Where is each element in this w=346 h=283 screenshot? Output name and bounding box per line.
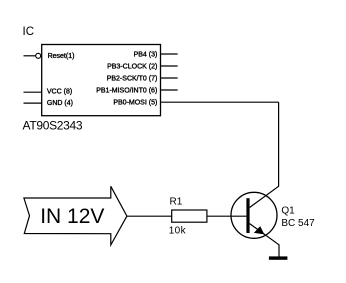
svg-text:PB4 (3): PB4 (3)	[134, 52, 158, 59]
svg-text:VCC (8): VCC (8)	[47, 89, 72, 96]
svg-text:PB1-MISO/INT0 (6): PB1-MISO/INT0 (6)	[96, 88, 157, 95]
svg-text:IC: IC	[23, 26, 35, 38]
svg-text:PB3-CLOCK (2): PB3-CLOCK (2)	[107, 64, 157, 71]
svg-text:PB0-MOSI (5): PB0-MOSI (5)	[113, 100, 157, 107]
svg-text:IN 12V: IN 12V	[40, 205, 104, 228]
svg-text:AT90S2343: AT90S2343	[23, 119, 83, 133]
svg-text:Reset(1): Reset(1)	[48, 53, 75, 60]
svg-text:10k: 10k	[169, 225, 187, 236]
svg-text:GND (4): GND (4)	[47, 100, 73, 107]
svg-text:PB2-SCK/T0 (7): PB2-SCK/T0 (7)	[107, 76, 158, 83]
svg-text:BC 547: BC 547	[281, 218, 315, 229]
svg-text:Q1: Q1	[281, 206, 295, 217]
svg-text:R1: R1	[170, 196, 183, 207]
